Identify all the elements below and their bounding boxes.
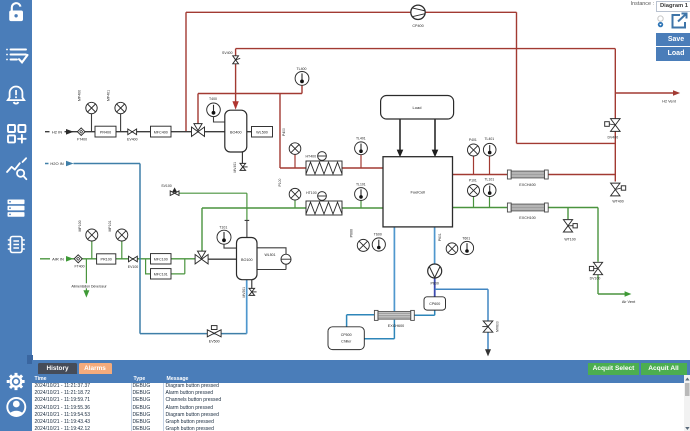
wire indigo P600 to CP600: [434, 278, 436, 297]
node H2 vent arrow: [673, 90, 680, 96]
wire blue chiller top to EXCH600 left: [347, 315, 376, 327]
vessel BO100: [237, 238, 258, 280]
controller MFC400: [151, 126, 172, 137]
svg-text:FuelCell: FuelCell: [410, 190, 425, 195]
valve DV100: [589, 262, 602, 274]
node red arrow into BO400: [232, 101, 238, 109]
wire green stems P101 TL101 right: [474, 193, 490, 208]
label Alimentation Deverseur: [66, 283, 112, 288]
valve EV500: [207, 326, 221, 337]
node H2 IN arrow: [66, 129, 74, 135]
sidebar icon: list bars: [8, 200, 25, 217]
svg-text:CP500: CP500: [341, 333, 352, 337]
flowmeter FT400 (air): [74, 255, 82, 263]
wire black T101 elbow: [224, 244, 237, 249]
controller MFC101: [151, 269, 172, 279]
svg-text:WT100: WT100: [564, 237, 575, 241]
node air vent arrow: [625, 291, 632, 296]
regulator PR400: [95, 126, 116, 137]
svg-text:SV400: SV400: [222, 51, 233, 55]
label AIR IN: [50, 256, 66, 262]
svg-text:MFC100: MFC100: [154, 258, 168, 262]
gauge TL400: [295, 72, 309, 86]
svg-text:FT400: FT400: [74, 264, 84, 268]
gauge TL401 left: [355, 142, 368, 155]
wire green valve V100 up to fuelcell line: [202, 208, 383, 255]
valve WT400: [611, 183, 626, 196]
sidebar icon: list-check: [6, 49, 27, 63]
wire black load arrows: [400, 119, 435, 150]
svg-text:P100: P100: [278, 178, 282, 186]
svg-text:MFC101: MFC101: [154, 273, 168, 277]
valve WT100: [563, 220, 577, 232]
wire blue fuelcell coolant down legs: [394, 227, 434, 311]
exchanger EXCH100: [507, 203, 548, 212]
wire blue chiller right to EXCH600 bottom: [364, 320, 394, 339]
gauge MP400: [86, 102, 97, 113]
wire red H2 vent: [615, 92, 673, 94]
valve V100 three-way: [195, 251, 208, 264]
svg-text:Air Vent: Air Vent: [622, 300, 636, 304]
sensor WL501 circle: [281, 254, 291, 264]
instance controls: [600, 0, 690, 62]
svg-text:MFC400: MFC400: [154, 130, 168, 134]
valve MV600: [482, 321, 493, 332]
exchanger EXCH400: [507, 170, 548, 179]
svg-text:CP600: CP600: [429, 302, 440, 306]
valve SV400 solenoid: [233, 56, 241, 64]
flowmeter FT400 (H2): [77, 128, 85, 136]
label H2O IN: [49, 160, 66, 166]
gauge P400 sensor: [289, 143, 301, 155]
gauge TL101 left: [355, 188, 368, 201]
svg-text:MV600: MV600: [495, 321, 499, 332]
wire red stems P401 TL401: [474, 152, 490, 175]
wire red vent vertical: [614, 49, 616, 182]
svg-text:MP101: MP101: [108, 220, 112, 231]
svg-text:TL401: TL401: [484, 137, 494, 141]
svg-text:AIR IN: AIR IN: [52, 257, 64, 262]
valve EV100: [129, 256, 138, 262]
sidebar icon: unlock: [9, 3, 23, 21]
gauge TL401 right: [483, 143, 496, 156]
block FuelCell: [383, 157, 453, 227]
svg-text:H2 IN: H2 IN: [52, 129, 62, 134]
wire black WL501 loop: [257, 248, 286, 270]
wire green SV100 line to BO100: [179, 193, 247, 220]
controller MFC100: [151, 254, 172, 264]
wire green sensor stems P100 TL101: [295, 196, 361, 208]
svg-text:CP400: CP400: [412, 24, 423, 28]
wire black H2 main line: [45, 131, 252, 133]
svg-text:T601: T601: [462, 237, 470, 241]
svg-text:TL101: TL101: [484, 178, 494, 182]
gauge MP101: [116, 229, 128, 241]
sidebar icon: graph search: [7, 158, 26, 179]
svg-text:SV100: SV100: [161, 184, 172, 188]
heater HT400: [306, 152, 342, 175]
toggle icon: [658, 16, 663, 21]
node alimentation arrow: [83, 290, 89, 297]
valve EV400: [128, 129, 137, 135]
block CP500 chiller: [328, 327, 364, 350]
node MV600 down arrow: [485, 349, 491, 356]
gauge T600: [372, 238, 385, 251]
svg-text:EXCH100: EXCH100: [519, 216, 535, 220]
label CP500 Chiller: [341, 333, 352, 343]
wire black SV100 drop into BO100: [245, 220, 250, 237]
svg-text:P600: P600: [430, 282, 438, 286]
svg-text:BO400: BO400: [230, 130, 241, 134]
svg-text:T400: T400: [209, 97, 217, 101]
svg-text:HT100: HT100: [306, 191, 317, 195]
gauge P401: [468, 144, 480, 156]
wire red sensor stems P400 TL401: [295, 150, 361, 168]
wire green air main: [40, 258, 196, 260]
svg-text:EV400: EV400: [127, 138, 138, 142]
valve V400 three-way: [192, 124, 205, 137]
wire blue H2O feed: [45, 163, 65, 165]
svg-text:T101: T101: [219, 226, 227, 230]
svg-text:MP401: MP401: [107, 90, 111, 101]
svg-text:WL500: WL500: [256, 130, 268, 134]
svg-text:MV401: MV401: [233, 162, 237, 173]
svg-text:H2O IN: H2O IN: [50, 161, 63, 166]
svg-text:EXCH400: EXCH400: [519, 183, 535, 187]
svg-text:MV501: MV501: [242, 287, 246, 298]
svg-text:TL400: TL400: [297, 67, 307, 71]
valve SV100 solenoid: [170, 188, 179, 195]
svg-text:H2 Vent: H2 Vent: [662, 100, 676, 104]
svg-text:T600: T600: [374, 232, 382, 236]
block CP600: [424, 297, 446, 310]
vessel BO400: [225, 110, 247, 152]
sidebar bottom notch: [27, 355, 33, 364]
svg-text:BO100: BO100: [241, 258, 252, 262]
wire red valve V400 top branch: [198, 85, 302, 128]
wire blue MV600 branch: [435, 289, 488, 349]
wire green MFC101 branch: [146, 259, 185, 274]
gauge T101: [217, 230, 231, 244]
wire red top recirculation loop: [186, 12, 615, 143]
svg-text:TL401: TL401: [356, 137, 366, 141]
svg-text:WL501: WL501: [264, 253, 275, 257]
wire black air line after valve V100: [208, 258, 237, 260]
svg-text:P601: P601: [438, 233, 442, 241]
svg-text:Load: Load: [413, 105, 422, 110]
sidebar icon: chip/diagram: [8, 237, 25, 253]
node AIR IN arrow: [66, 256, 73, 262]
gauge P601 sensor: [446, 243, 458, 255]
svg-text:PR400: PR400: [100, 130, 111, 134]
svg-text:P600: P600: [350, 229, 354, 237]
sidebar icon: settings gear: [7, 373, 25, 390]
sensor WL500: [252, 127, 273, 138]
svg-text:Chiller: Chiller: [341, 339, 352, 343]
valve MV401 drain: [240, 152, 248, 170]
wire red SV400 branch: [236, 49, 616, 102]
valve DV400: [605, 119, 620, 132]
gauge T601: [460, 241, 473, 254]
regulator PR100: [97, 254, 116, 264]
svg-text:DV400: DV400: [607, 135, 618, 139]
svg-text:FT400: FT400: [77, 137, 87, 141]
svg-text:EV500: EV500: [209, 340, 220, 344]
svg-text:MP100: MP100: [78, 220, 82, 231]
wire blue riser into BO100: [246, 280, 248, 334]
svg-text:WT400: WT400: [612, 199, 623, 203]
gauge P100 sensor: [289, 188, 301, 200]
svg-text:DV100: DV100: [590, 277, 601, 281]
block Load: [381, 96, 454, 120]
wire green alimentation deverseur branch: [85, 259, 87, 291]
valve MV501 drain: [249, 280, 257, 295]
node H2O IN arrow: [66, 161, 74, 167]
gauge P101: [468, 185, 480, 197]
svg-text:P101: P101: [469, 178, 477, 182]
label H2 IN: [50, 129, 65, 135]
wire green fuelcell out right: [453, 208, 626, 295]
svg-text:P400: P400: [282, 128, 286, 136]
pump CP400: [411, 5, 425, 19]
exchanger EXCH600: [374, 310, 414, 320]
pump P600: [428, 264, 442, 278]
svg-text:Alimentation Déverseur: Alimentation Déverseur: [71, 285, 107, 289]
gauge TL101 right: [483, 184, 496, 197]
gauge T400: [207, 103, 221, 117]
left sidebar: [0, 0, 32, 431]
wire red P400 supply to HT400: [280, 94, 383, 169]
svg-text:TL101: TL101: [356, 182, 366, 186]
svg-text:P401: P401: [469, 138, 477, 142]
sidebar icon: alarm bell: [8, 87, 24, 104]
wire black T400 elbow: [214, 116, 225, 123]
wire black MP400 MP401 stems: [92, 113, 121, 132]
gauge MP100: [86, 229, 98, 241]
heater HT100: [306, 192, 342, 215]
open external icon: [673, 14, 687, 28]
gauge P600 sensor: [357, 239, 369, 251]
bottom history panel: [32, 360, 690, 431]
svg-text:EV100: EV100: [128, 265, 139, 269]
sidebar icon: channels grid-plus: [8, 125, 26, 143]
gauge MP401: [115, 102, 126, 113]
svg-text:MP400: MP400: [78, 90, 82, 101]
svg-text:HT400: HT400: [306, 155, 317, 159]
svg-text:PR100: PR100: [101, 258, 112, 262]
wire green MP100 MP101 stems: [92, 240, 122, 259]
wire blue CP600 to EXCH600: [412, 310, 434, 315]
sidebar icon: user: [7, 398, 25, 416]
svg-text:EXCH600: EXCH600: [388, 324, 404, 328]
wire red fuelcell out to EXCH400: [453, 174, 616, 176]
